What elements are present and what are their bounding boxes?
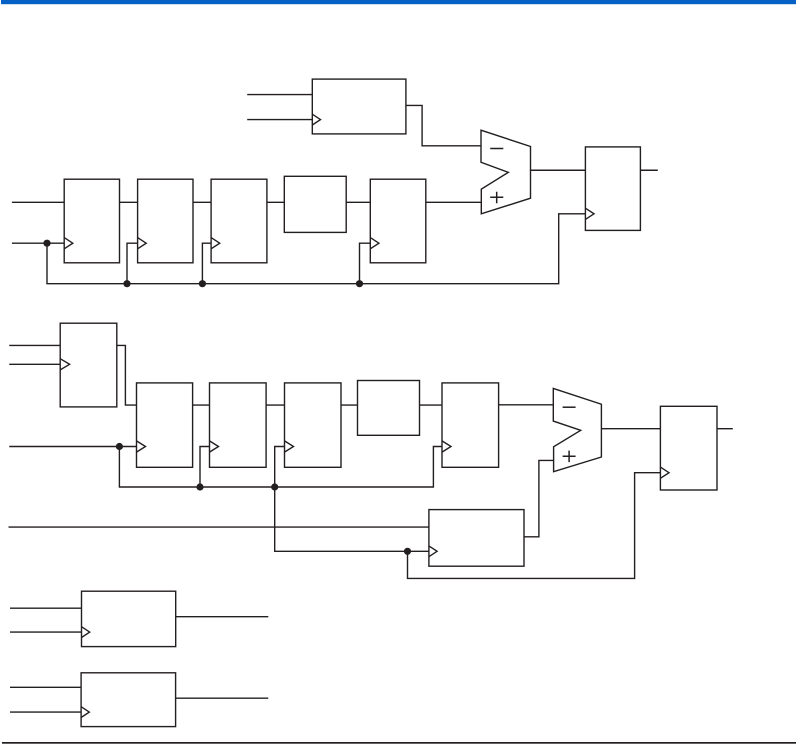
clock triangle B4 xyxy=(285,441,294,452)
wire InReg2 data input xyxy=(9,344,60,346)
wire InReg2 clock input xyxy=(9,363,60,365)
register B6 xyxy=(442,383,499,467)
junction dot bus riser B3 xyxy=(196,483,203,490)
wire ALU1 output xyxy=(531,169,586,171)
clock triangle B6 xyxy=(442,441,451,452)
wire R3 to SQ1 xyxy=(267,201,284,203)
wire BoxB output xyxy=(176,697,269,699)
clock triangle InReg2 xyxy=(60,359,69,370)
wire R4 to ALU1 plus input xyxy=(426,201,482,203)
wire ALU2 output xyxy=(601,428,660,430)
junction dot clock row2 xyxy=(116,443,123,450)
register BoxA xyxy=(82,591,176,646)
wire B4 to SQ2 xyxy=(341,404,358,406)
clock triangle R4 xyxy=(370,238,379,249)
block SQ2 (combinational box) xyxy=(358,381,420,436)
wire SQ2 to B6 xyxy=(420,404,443,406)
register R3 xyxy=(211,179,267,263)
wire riser to R3 clock xyxy=(202,243,211,284)
register R2 xyxy=(138,179,193,263)
wire FB register data input xyxy=(9,526,429,528)
wire B6 to ALU2 minus input xyxy=(499,404,554,406)
wire BoxB data input xyxy=(10,686,81,688)
register R4 xyxy=(370,179,426,263)
register InReg2 xyxy=(60,323,117,407)
junction dot bus riser B4 xyxy=(271,483,278,490)
clock triangle T1 xyxy=(312,114,320,125)
footer black rule xyxy=(2,742,796,744)
clock triangle B3 xyxy=(210,441,219,452)
junction dot feedback clock xyxy=(404,548,411,555)
minus label ALU2 xyxy=(563,406,576,408)
wire OutReg1 output xyxy=(640,169,657,171)
wire clock bus row2 xyxy=(119,486,434,488)
clock triangle R1 xyxy=(64,238,73,249)
wire riser to B6 clock xyxy=(433,447,442,488)
clock triangle B2 xyxy=(137,441,146,452)
wire feedback clock drop xyxy=(274,487,276,551)
wire clock input row2 xyxy=(9,446,136,448)
wire T1 data input xyxy=(247,94,312,96)
wire riser to B3 clock xyxy=(200,447,210,488)
register B4 xyxy=(285,383,342,467)
wire clock bus row1 xyxy=(46,283,558,285)
register B3 xyxy=(210,383,267,467)
subtractor ALU2 xyxy=(553,388,601,471)
wire bus rise to OutReg1 clock xyxy=(559,214,586,285)
wire T1 output to ALU1 top input xyxy=(406,105,481,145)
wire riser to R2 clock xyxy=(127,243,138,284)
wire riser to B4 clock xyxy=(275,447,285,488)
register FB (feedback wide register) xyxy=(429,510,524,567)
clock triangle FB xyxy=(429,546,437,557)
wire R1 to R2 xyxy=(120,201,138,203)
wire clock drop row1 xyxy=(46,243,48,284)
register T1 (top wide register) xyxy=(312,79,406,134)
wire InReg2 output to B2 xyxy=(117,345,137,405)
wire feedback clock line to FB register xyxy=(274,550,429,552)
plus label ALU2 xyxy=(563,451,576,463)
register OutReg2 xyxy=(660,406,717,490)
wire B3 to B4 xyxy=(266,404,284,406)
wire riser to R4 clock xyxy=(360,243,371,284)
junction dot clock row1 xyxy=(43,240,50,247)
wire FB output to ALU2 plus input xyxy=(524,460,554,536)
wire clock input row1 xyxy=(12,242,64,244)
register R1 xyxy=(64,179,119,263)
block SQ1 (combinational box) xyxy=(284,176,346,232)
wire clock drop row2 xyxy=(118,447,120,488)
wire BoxA output xyxy=(176,616,269,618)
wire BoxA clock input xyxy=(10,631,82,633)
clock triangle OutReg1 xyxy=(585,208,594,219)
wire clock branch to OutReg2 xyxy=(408,473,661,579)
wire OutReg2 output xyxy=(717,428,733,430)
wire BoxA data input xyxy=(10,607,82,609)
header blue rule xyxy=(1,0,796,4)
plus label ALU1 xyxy=(490,192,503,204)
clock triangle R2 xyxy=(138,238,147,249)
wire data input row1 xyxy=(12,201,64,203)
wire BoxB clock input xyxy=(10,711,81,713)
wire T1 clock input xyxy=(247,119,312,121)
clock triangle BoxA xyxy=(82,627,90,638)
clock triangle OutReg2 xyxy=(660,467,669,478)
wire SQ1 to R4 xyxy=(346,201,370,203)
register BoxB xyxy=(81,673,176,727)
subtractor ALU1 xyxy=(481,130,531,214)
junction dot bus riser R2 xyxy=(123,280,130,287)
minus label ALU1 xyxy=(490,148,503,150)
register OutReg1 xyxy=(585,147,640,231)
register B2 xyxy=(137,383,193,467)
wire R2 to R3 xyxy=(193,201,211,203)
junction dot bus riser R4 xyxy=(356,280,363,287)
wire B2 to B3 xyxy=(193,404,210,406)
junction dot bus riser R3 xyxy=(199,280,206,287)
clock triangle R3 xyxy=(211,238,220,249)
clock triangle BoxB xyxy=(81,707,89,718)
